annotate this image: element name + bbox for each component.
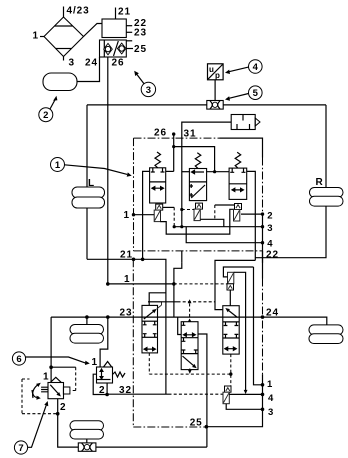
node port1 junction	[172, 282, 176, 286]
svg-text:4: 4	[268, 393, 274, 404]
wire V2 left port	[182, 171, 190, 173]
air dryer	[44, 17, 84, 57]
svg-text:1: 1	[92, 357, 98, 368]
air spring left lower	[70, 325, 104, 344]
wire V6 port2	[93, 374, 107, 394]
wire u/p to line	[214, 80, 216, 101]
pilot P2 armature	[194, 209, 200, 221]
V7 spring box right	[63, 387, 70, 394]
node 26	[172, 132, 175, 135]
wire port1 dashed to P5	[174, 283, 227, 285]
stack S2 valve body	[181, 322, 198, 370]
wire 24 to bellows RB	[263, 317, 327, 325]
node port3 31	[180, 225, 183, 228]
lower box dash-dot border	[133, 259, 206, 427]
node 25	[205, 425, 209, 429]
wire port1 lower solid	[108, 283, 174, 285]
node port1 ECU	[132, 213, 135, 216]
wire V7 port2 down	[58, 399, 79, 447]
wire nest B	[223, 267, 253, 277]
port 4/23 stub	[64, 6, 90, 18]
svg-text:4: 4	[253, 62, 259, 73]
V7 manual arrows	[32, 383, 41, 400]
stack S1 mid T marks	[143, 321, 157, 337]
solenoid valve V3 body	[229, 168, 247, 199]
wire port2 line	[241, 213, 263, 215]
node 31 pilot tap	[180, 208, 183, 211]
wire port3 line	[174, 226, 262, 228]
node port1 lower	[106, 282, 110, 286]
svg-text:1: 1	[55, 160, 61, 171]
check valve right	[117, 43, 126, 54]
svg-text:26: 26	[112, 58, 125, 69]
svg-text:3: 3	[69, 58, 75, 69]
check valve left	[104, 43, 113, 54]
callout circle 5	[225, 86, 262, 101]
wire L column	[86, 105, 88, 259]
right column solid bottom	[206, 374, 262, 427]
stack S3 valve body	[223, 306, 239, 354]
wire 26 main column (x=107.3 down)	[107, 57, 109, 284]
stack S2 pilot arrow down	[188, 369, 192, 374]
svg-text:1: 1	[43, 372, 49, 383]
stack S1 pilot dashed	[148, 353, 150, 374]
node port3	[261, 225, 264, 228]
pressure limiter valve top right	[231, 115, 260, 130]
svg-text:2: 2	[60, 402, 66, 413]
wire 31 to limiter	[182, 122, 231, 138]
svg-text:3: 3	[268, 407, 273, 418]
svg-text:3: 3	[267, 223, 272, 234]
node valve V1 drop	[141, 258, 145, 262]
wire bottom main line	[96, 446, 207, 448]
bus line solid part	[148, 301, 178, 303]
air spring L	[72, 187, 105, 208]
wire bellows to silencer	[86, 439, 88, 444]
unlabeled stub	[126, 40, 132, 42]
collector column right	[262, 214, 264, 263]
node port4	[261, 241, 264, 244]
pressure limiter V6	[97, 362, 126, 384]
solenoid valve V1 body	[150, 168, 166, 203]
node 24	[261, 315, 265, 319]
node port1 bottom	[261, 383, 265, 387]
wire V1 right port to 26	[166, 170, 174, 172]
node 21 box corner	[132, 258, 136, 262]
wire V1 left port	[143, 171, 150, 259]
svg-text:1: 1	[124, 210, 130, 221]
svg-text:24: 24	[85, 58, 98, 69]
callout circle 2	[39, 96, 58, 122]
svg-text:6: 6	[16, 354, 21, 365]
wire P1 right dashed drop	[163, 207, 175, 226]
stack S2 pilot arrow up	[188, 299, 192, 321]
wire 23 trunk drop to V7	[50, 317, 52, 382]
node branch	[172, 145, 175, 148]
wire exhaust path A	[215, 260, 255, 309]
wire port24 to reservoir	[77, 57, 100, 82]
pilot P5 box	[225, 386, 232, 392]
wire port4 bottom line	[229, 393, 262, 395]
node P1 dash end	[173, 225, 176, 228]
wire 32 line solid	[107, 393, 168, 395]
svg-text:25: 25	[134, 44, 147, 55]
wire port1 to P1	[134, 214, 155, 216]
pilot P1 armature	[154, 210, 160, 222]
port 1 of dryer	[33, 31, 45, 42]
valve6 supply elbow	[100, 317, 108, 367]
wire nest C	[234, 272, 246, 390]
wire 26 drop	[173, 134, 175, 171]
wire 31 column	[181, 138, 183, 227]
wire R column top	[325, 105, 327, 188]
svg-text:5: 5	[253, 88, 259, 99]
wire port4 line	[186, 227, 262, 243]
svg-text:25: 25	[190, 418, 203, 429]
wire branch to valve2 right port	[174, 147, 215, 172]
svg-text:1: 1	[33, 31, 39, 42]
wire supply jog	[181, 251, 183, 263]
wire 21 branch to stack S1	[149, 293, 166, 306]
node port4 bottom	[261, 393, 265, 397]
wire 21 line	[87, 259, 166, 394]
svg-text:26: 26	[154, 128, 167, 139]
svg-text:p: p	[215, 71, 220, 80]
wire P1 bottom to bus	[160, 209, 234, 234]
svg-text:23: 23	[134, 28, 147, 39]
svg-text:4: 4	[267, 239, 273, 250]
port 3 stub	[64, 57, 75, 69]
node valve2 right port	[213, 170, 216, 173]
wire V6 bottom drop	[106, 383, 108, 395]
callout circle 7	[14, 401, 48, 454]
air spring right bottom	[309, 325, 343, 344]
stack S3 top section arrow	[225, 308, 237, 318]
svg-text:1: 1	[267, 379, 273, 390]
port 25 stub	[126, 44, 147, 55]
wire P4 to stack S3	[229, 290, 231, 306]
wire V3 right port down to 22	[247, 171, 256, 260]
callout circle 3	[134, 71, 155, 97]
svg-text:2: 2	[267, 211, 272, 222]
wire P3 link dashed	[215, 205, 235, 219]
bus line dashed part	[178, 301, 216, 303]
wire V2-V3 port line	[207, 171, 230, 173]
svg-text:23: 23	[120, 308, 133, 319]
pilot P1 box	[156, 204, 163, 210]
V7 dashed actuator box	[22, 379, 58, 414]
wire dryer to valve block	[84, 24, 103, 37]
node port3 bottom	[261, 408, 265, 412]
wire 32 line dashed to P5	[169, 393, 224, 395]
port 23 stub	[126, 28, 147, 39]
svg-text:R: R	[316, 177, 324, 188]
spring valve V1	[155, 152, 161, 168]
air spring R	[310, 188, 344, 207]
stack S1 valve body	[142, 305, 158, 353]
pilot P4 armature	[228, 272, 234, 284]
pilot P3 box	[235, 204, 242, 210]
svg-text:2: 2	[43, 110, 48, 121]
stack S2 top section marks	[182, 322, 196, 337]
node V7 port2	[56, 412, 60, 416]
stack S2 mid T marks	[182, 338, 198, 354]
svg-text:31: 31	[184, 129, 197, 140]
four-circuit protection valve body	[100, 19, 127, 57]
node bellows LL tap	[85, 315, 89, 319]
wire bellows LL stub	[86, 317, 88, 324]
node 26 column tap	[106, 315, 110, 319]
wire collector jog into lower box	[262, 251, 264, 279]
port 22 stub	[126, 18, 147, 29]
svg-text:21: 21	[118, 7, 131, 18]
right column dash-dot segment	[262, 279, 264, 375]
stack S3 pilot dashed down	[230, 354, 232, 386]
wire 23-24 trunk line	[51, 316, 262, 318]
pilot P5 armature	[223, 392, 229, 404]
node V6 out	[105, 393, 109, 397]
stack S1 bottom arrow	[144, 348, 155, 351]
port 21 stub	[116, 7, 131, 20]
stack S2 left port stub	[178, 317, 182, 334]
wire port3 bottom	[226, 404, 262, 410]
throttle silencer 5	[207, 101, 223, 110]
rotary valve V7 body	[48, 377, 64, 398]
pressure sensor u/p U4	[208, 64, 224, 80]
wire S2 right port to exhaust column	[198, 334, 207, 447]
svg-text:22: 22	[266, 250, 279, 261]
callout circle 4	[225, 60, 262, 74]
stack S3 mid T marks	[224, 322, 239, 338]
wire main supply horizontal y=104.4	[87, 104, 326, 106]
wire V7 pilot branch	[51, 367, 76, 390]
pilot P2 box	[196, 203, 203, 209]
silencer throttle bottom	[78, 443, 96, 451]
wire R bottom to 22 line	[255, 206, 326, 258]
stack S1 top section arrow	[144, 302, 162, 319]
air reservoir	[43, 73, 77, 91]
pilot P4 box	[227, 284, 234, 290]
svg-text:7: 7	[18, 443, 23, 454]
wire supply drop to port1	[174, 263, 182, 317]
spring valve V2	[195, 153, 201, 169]
node V7 pilot tap	[49, 365, 53, 369]
V7 manual lines	[41, 387, 48, 392]
svg-text:u: u	[209, 65, 214, 74]
svg-text:4/23: 4/23	[67, 6, 90, 17]
pilot dashed cross line	[149, 373, 231, 375]
callout circle 6	[12, 352, 89, 365]
pilot P3 armature	[234, 210, 240, 222]
callout circle 1	[51, 158, 132, 177]
svg-text:3: 3	[146, 85, 151, 96]
wire P2 bottom	[201, 219, 224, 226]
arrow C onto port4	[244, 390, 248, 394]
solenoid valve V2 body	[189, 169, 206, 201]
stack S3 bottom arrow	[225, 347, 236, 350]
stack S2 bottom diagonal	[183, 356, 197, 368]
wire nest B right drop	[254, 267, 263, 385]
node port2	[261, 212, 264, 215]
air spring lift axle	[70, 421, 104, 439]
wire dashed 31 to P2	[182, 209, 194, 211]
ECU box dash-dot border	[134, 138, 263, 251]
node pilot cross	[229, 372, 232, 375]
spring valve V3	[235, 152, 241, 168]
